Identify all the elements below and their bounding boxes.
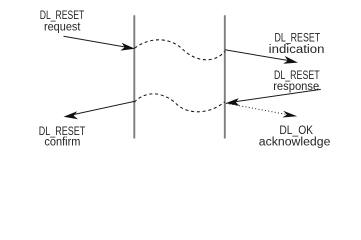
svg-text:DL_OK: DL_OK [279, 125, 313, 137]
arrow DL_RESET indication [225, 50, 298, 64]
label DL_RESET indication [269, 32, 325, 56]
label DL_RESET request [40, 10, 85, 34]
label DL_RESET response [273, 70, 319, 93]
station line B (right service boundary) [224, 15, 226, 138]
svg-text:indication: indication [269, 44, 325, 56]
arrow DL_RESET response [226, 89, 321, 105]
arrow DL_RESET request [64, 36, 136, 50]
message wave response to confirm (dashed) [134, 94, 225, 112]
label DL_OK acknowledge [259, 125, 331, 149]
label DL_RESET confirm [39, 126, 86, 149]
svg-text:acknowledge: acknowledge [259, 137, 331, 149]
svg-text:request: request [44, 22, 81, 34]
arrow DL_OK acknowledge (dotted) [226, 103, 297, 117]
message wave request to indication (dashed) [135, 40, 225, 60]
arrow DL_RESET confirm [64, 101, 135, 119]
station line A (left service boundary) [133, 15, 135, 138]
svg-text:DL_RESET: DL_RESET [40, 10, 85, 22]
svg-text:confirm: confirm [44, 137, 80, 149]
svg-text:DL_RESET: DL_RESET [275, 32, 321, 44]
